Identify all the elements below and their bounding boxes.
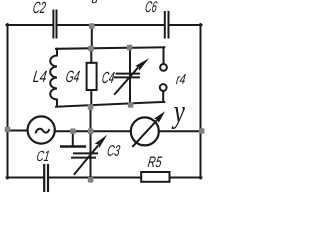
wire right border [200, 24, 202, 179]
capacitor C2 [53, 11, 56, 38]
node tank bottom left [88, 104, 94, 110]
wire left border [7, 24, 9, 179]
node tank top left [88, 46, 94, 52]
wire mid horizontal left [8, 130, 28, 132]
wire bottom middle [49, 177, 140, 179]
label y [172, 107, 185, 129]
wire node a drop [91, 25, 93, 48]
label C1 [37, 151, 49, 161]
inductor L4 [50, 49, 57, 107]
node a [89, 23, 95, 29]
label node a partial [92, 0, 98, 3]
node left border mid [5, 127, 11, 133]
node ground tap [70, 128, 76, 134]
label L4 [33, 71, 47, 82]
variable capacitor C4 [115, 48, 150, 104]
wire tank bottom edge [56, 102, 164, 107]
wire mid meter to right [159, 130, 202, 132]
resistor R5 [141, 172, 169, 182]
wire bottom left [7, 177, 44, 179]
node right border mid [199, 128, 205, 134]
label G4 [66, 71, 80, 83]
wire tank top edge [56, 47, 164, 49]
label C2 [33, 2, 46, 13]
node tank bottom right [128, 102, 134, 108]
label R5 [148, 157, 163, 168]
label C3 [108, 145, 121, 156]
label C4 [102, 72, 114, 83]
wire mid generator to meter [55, 130, 131, 132]
ground [61, 131, 85, 146]
terminals r4 [160, 47, 167, 102]
wire top left [7, 24, 53, 26]
wire G4 bottom to mid [90, 105, 92, 131]
resistor G4 [87, 48, 97, 105]
capacitor C6 [165, 12, 169, 38]
label C6 [146, 1, 158, 12]
node C3 bottom [88, 177, 94, 183]
node tank top right [127, 45, 133, 51]
wire top right [170, 24, 202, 26]
meter Y [131, 111, 165, 146]
generator G [28, 116, 55, 143]
label r4 [176, 74, 186, 84]
node C3 top [88, 128, 94, 134]
wire bottom right [170, 177, 202, 179]
capacitor C1 [44, 165, 48, 192]
variable capacitor C3 [72, 131, 107, 177]
wire top middle [58, 24, 164, 26]
